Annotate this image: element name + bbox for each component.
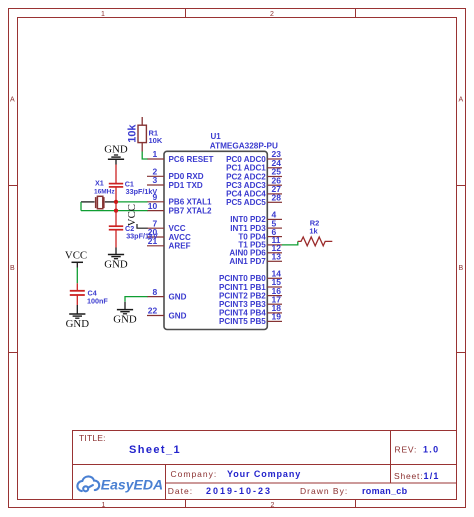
svg-text:ATMEGA328P-PU: ATMEGA328P-PU (210, 142, 278, 151)
pin 3 PD1 TXD (147, 184, 164, 186)
svg-text:1/1: 1/1 (424, 471, 440, 481)
svg-text:PC0 ADC0: PC0 ADC0 (226, 155, 266, 164)
svg-text:19: 19 (272, 312, 282, 322)
capacitor C1 33pF/1kV (109, 183, 123, 185)
svg-text:A: A (10, 96, 15, 103)
wire VCC flag to pin 7 (137, 224, 148, 228)
svg-text:10k: 10k (126, 124, 138, 143)
pin 14 PCINT0 PB0 (267, 277, 282, 279)
svg-text:PC1 ADC1: PC1 ADC1 (226, 164, 266, 173)
pin 2 PD0 RXD (147, 175, 164, 177)
pin 20 AVCC (147, 236, 164, 238)
ground (below C2) (108, 254, 124, 256)
op IC body U1 ATMEGA328P-PU (164, 151, 267, 329)
svg-text:16MHz: 16MHz (94, 188, 115, 195)
svg-text:B: B (458, 265, 463, 272)
pin 8 GND (147, 296, 164, 298)
svg-text:AVCC: AVCC (169, 233, 191, 242)
svg-text:PD0 RXD: PD0 RXD (169, 172, 204, 181)
svg-text:PB7 XTAL2: PB7 XTAL2 (169, 206, 213, 215)
pin 11 T1 PD5 (267, 244, 282, 246)
capacitor C2 33pF/1kV (109, 225, 123, 227)
svg-text:Sheet:: Sheet: (394, 471, 423, 481)
svg-text:GND: GND (169, 311, 187, 320)
title block outline (73, 431, 457, 500)
pin 27 PC4 ADC4 (267, 193, 282, 195)
wire node B to C2 (115, 211, 117, 226)
svg-text:VCC: VCC (169, 224, 186, 233)
pin 28 PC5 ADC5 (267, 201, 282, 203)
svg-text:REV:: REV: (395, 444, 418, 454)
svg-text:INT0 PD2: INT0 PD2 (230, 215, 266, 224)
pin 25 PC2 ADC2 (267, 176, 282, 178)
wire C4 to ground (76, 295, 78, 305)
svg-text:28: 28 (272, 193, 282, 203)
wire R1 to pin 1 (142, 152, 147, 160)
node B junction dot (114, 209, 118, 213)
svg-text:PD1 TXD: PD1 TXD (169, 181, 203, 190)
pin 4 INT0 PD2 (267, 218, 282, 220)
svg-text:Your Company: Your Company (227, 469, 301, 479)
svg-text:PC5 ADC5: PC5 ADC5 (226, 198, 266, 207)
svg-text:33pF/1kV: 33pF/1kV (126, 187, 158, 196)
pin 6 T0 PD4 (267, 236, 282, 238)
svg-text:GND: GND (104, 259, 128, 271)
wire node A to node B (115, 202, 117, 211)
svg-text:GND: GND (104, 144, 128, 156)
svg-text:PCINT0 PB0: PCINT0 PB0 (219, 274, 266, 283)
pin 1 PC6 RESET (147, 158, 164, 160)
pin 10 PB7 XTAL2 (147, 210, 164, 212)
svg-text:2: 2 (270, 11, 274, 18)
svg-text:8: 8 (152, 287, 157, 297)
svg-text:GND: GND (66, 318, 90, 330)
ground (at pin 8) (117, 309, 133, 311)
svg-text:2019-10-23: 2019-10-23 (206, 486, 272, 496)
svg-text:Sheet_1: Sheet_1 (129, 444, 181, 456)
svg-text:EasyEDA: EasyEDA (101, 476, 163, 492)
wire C2 to ground (115, 230, 117, 248)
svg-text:VCC: VCC (65, 250, 87, 262)
svg-text:AREF: AREF (169, 242, 191, 251)
resistor R2 1k (298, 237, 333, 246)
svg-text:GND: GND (169, 292, 187, 301)
svg-text:1: 1 (102, 502, 106, 509)
pin 5 INT1 PD3 (267, 227, 282, 229)
wire node A to pin 9 (114, 201, 148, 203)
svg-text:PCINT3 PB3: PCINT3 PB3 (219, 300, 266, 309)
svg-text:PC2 ADC2: PC2 ADC2 (226, 172, 266, 181)
svg-text:X1: X1 (95, 179, 104, 188)
svg-text:1: 1 (101, 11, 105, 18)
svg-text:PCINT5 PB5: PCINT5 PB5 (219, 317, 266, 326)
svg-text:VCC: VCC (126, 204, 138, 226)
wire pin 11 to R2 (282, 241, 298, 245)
power flag VCC bar (72, 261, 84, 263)
capacitor C4 100nF (70, 290, 85, 292)
svg-text:GND: GND (113, 314, 137, 326)
svg-text:33pF/1kV: 33pF/1kV (126, 231, 158, 240)
svg-text:2: 2 (271, 502, 275, 509)
svg-text:1: 1 (152, 149, 157, 159)
wire VCC to C4 (76, 268, 78, 284)
pin 19 PCINT5 PB5 (267, 320, 282, 322)
wire C1 to node A (115, 187, 117, 202)
svg-text:PC3 ADC3: PC3 ADC3 (226, 181, 266, 190)
pin 7 VCC (147, 227, 164, 229)
svg-text:Date:: Date: (168, 486, 193, 496)
frame tick marks (185, 9, 187, 18)
resistor R1 10K (141, 117, 143, 125)
wire pin 8 to ground (125, 297, 148, 302)
title block dividers (73, 464, 457, 466)
svg-text:AIN1 PD7: AIN1 PD7 (229, 257, 266, 266)
svg-text:roman_cb: roman_cb (362, 486, 408, 496)
pin 26 PC3 ADC3 (267, 184, 282, 186)
svg-text:10: 10 (148, 201, 158, 211)
svg-text:TITLE:: TITLE: (79, 433, 106, 443)
ground (above C1, flipped) (108, 158, 124, 160)
svg-text:100nF: 100nF (87, 296, 108, 305)
pin 18 PCINT4 PB4 (267, 312, 282, 314)
svg-text:PB6 XTAL1: PB6 XTAL1 (169, 198, 213, 207)
pin 13 AIN1 PD7 (267, 260, 282, 262)
svg-text:B: B (10, 265, 15, 272)
svg-text:13: 13 (272, 252, 282, 262)
pin 24 PC1 ADC1 (267, 167, 282, 169)
wire GND to C1 (115, 159, 117, 164)
svg-text:1k: 1k (309, 227, 318, 236)
pin 22 GND (147, 315, 164, 317)
EasyEDA logo cloud icon (77, 476, 99, 491)
svg-text:Company:: Company: (171, 469, 218, 479)
svg-text:U1: U1 (211, 132, 222, 141)
svg-text:PC6 RESET: PC6 RESET (169, 155, 214, 164)
pin 16 PCINT2 PB2 (267, 295, 282, 297)
wire crystal left leg down (80, 202, 82, 211)
svg-text:22: 22 (148, 306, 158, 316)
node A junction dot (114, 200, 118, 204)
svg-text:10K: 10K (149, 136, 163, 145)
pin 12 AIN0 PD6 (267, 252, 282, 254)
crystal X1 16MHz (81, 201, 95, 203)
svg-text:3: 3 (152, 175, 157, 185)
svg-text:A: A (458, 96, 463, 103)
wire bottom to pin 10 (81, 210, 148, 212)
ground (below C4) (69, 313, 85, 315)
pin 9 PB6 XTAL1 (147, 201, 164, 203)
svg-text:Drawn By:: Drawn By: (300, 486, 348, 496)
pin 17 PCINT3 PB3 (267, 303, 282, 305)
pin 15 PCINT1 PB1 (267, 286, 282, 288)
pin 21 AREF (147, 245, 164, 247)
pin 23 PC0 ADC0 (267, 158, 282, 160)
svg-text:1.0: 1.0 (423, 444, 439, 454)
